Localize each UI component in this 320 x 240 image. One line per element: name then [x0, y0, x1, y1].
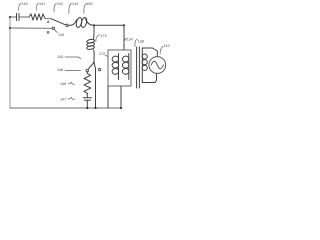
- svg-text:170: 170: [101, 34, 107, 38]
- svg-text:A: A: [46, 20, 50, 24]
- svg-text:141: 141: [39, 2, 45, 6]
- box winding left loop 3: [112, 68, 119, 75]
- wire junction down to coil 170: [92, 25, 95, 39]
- wire box bottom down to bus end: [120, 86, 122, 108]
- resistor 146: [84, 72, 91, 94]
- transformer core lines: [137, 47, 140, 88]
- svg-text:110: 110: [164, 44, 170, 48]
- node second junction on bus: [9, 27, 11, 29]
- sine wave: [151, 61, 163, 69]
- leader for 172: [105, 55, 108, 57]
- svg-text:146: 146: [60, 82, 66, 86]
- box winding left loop 2: [112, 62, 119, 69]
- primary winding loop 3: [142, 65, 148, 71]
- wire top-right horizontal: [94, 24, 124, 26]
- svg-text:142: 142: [57, 2, 63, 6]
- leader for 144: [69, 4, 72, 14]
- wire resistor to capacitor: [86, 93, 88, 98]
- box winding right line: [128, 54, 130, 80]
- leader for 140: [19, 4, 21, 11]
- svg-text:148: 148: [57, 68, 63, 72]
- primary winding 136 line: [141, 48, 143, 81]
- AC source 110: [149, 57, 166, 74]
- primary winding loop 1: [142, 54, 148, 60]
- svg-text:145: 145: [57, 55, 63, 59]
- leader for 170: [96, 35, 100, 42]
- inductor 144 loop 2: [80, 17, 87, 28]
- box winding right loop 2: [122, 62, 129, 69]
- wire junction down to box: [123, 25, 125, 50]
- contact circle right open: [98, 68, 100, 70]
- switch blade 145 to left contact: [88, 63, 94, 70]
- svg-text:147: 147: [60, 97, 66, 101]
- box winding left line: [118, 54, 120, 80]
- node fork junction: [93, 62, 95, 64]
- inductor 144 loop 1: [75, 17, 82, 28]
- wire capacitor to bottom bus: [86, 100, 88, 108]
- box winding right loop 1: [122, 56, 129, 63]
- wire B branch: [10, 27, 52, 29]
- wire left vertical bus: [9, 17, 11, 108]
- box winding right loop 3: [122, 68, 129, 75]
- leader for 142: [54, 4, 57, 13]
- capacitor 147: [83, 98, 91, 101]
- svg-text:B: B: [47, 31, 50, 35]
- svg-text:150: 150: [86, 2, 92, 6]
- load box: [108, 50, 131, 86]
- leader for 138: [135, 39, 137, 46]
- node junction right (124,25): [123, 24, 125, 26]
- wire contact to coil: [68, 20, 76, 26]
- leader for 145: [65, 57, 81, 59]
- wire top from bus to capacitor: [10, 16, 16, 18]
- box winding left loop 1: [112, 56, 119, 63]
- contact circle left (to RC): [86, 69, 88, 71]
- node bottom bus end: [120, 107, 122, 109]
- primary winding loop 2: [142, 59, 148, 65]
- svg-text:140: 140: [22, 2, 28, 6]
- leader for 146: [68, 82, 75, 85]
- svg-text:138: 138: [138, 40, 144, 44]
- svg-text:172: 172: [99, 52, 105, 56]
- leader for 147: [68, 97, 75, 100]
- wire stem down to bottom bus: [94, 63, 96, 109]
- node top-left junction: [9, 16, 11, 18]
- leader for 110: [160, 46, 163, 54]
- wire winding top to source: [142, 48, 157, 57]
- leader for 150: [84, 4, 87, 14]
- leader for 143: [55, 29, 58, 33]
- wire capacitor to resistor: [20, 16, 30, 18]
- wire bottom bus: [10, 107, 121, 109]
- inductor 170 loop 2: [86, 42, 94, 47]
- svg-text:144: 144: [72, 2, 78, 6]
- node stem-bottom junction: [94, 107, 96, 109]
- leader for 148: [65, 70, 81, 72]
- wire resistor to terminal A: [45, 18, 51, 20]
- wire box bottom-left down: [107, 86, 109, 108]
- leader for 134: [124, 39, 127, 47]
- node RC-bottom junction: [86, 107, 88, 109]
- capacitor 140: [17, 14, 20, 21]
- svg-text:134: 134: [127, 38, 133, 42]
- contact circle B: [52, 27, 54, 29]
- inductor 170 loop 3: [86, 45, 94, 50]
- inductor 170 loop 1: [86, 39, 94, 44]
- resistor 141: [29, 14, 45, 20]
- node junction left (94,25): [93, 24, 95, 26]
- contact circle at coil side: [66, 24, 68, 26]
- svg-text:143: 143: [58, 33, 64, 37]
- wire coil to junction: [86, 19, 94, 25]
- wire coil 170 to fork: [93, 50, 96, 63]
- leader for 141: [36, 4, 38, 11]
- switch blade 142 from A: [51, 19, 66, 25]
- wire winding bottom to source: [142, 73, 156, 82]
